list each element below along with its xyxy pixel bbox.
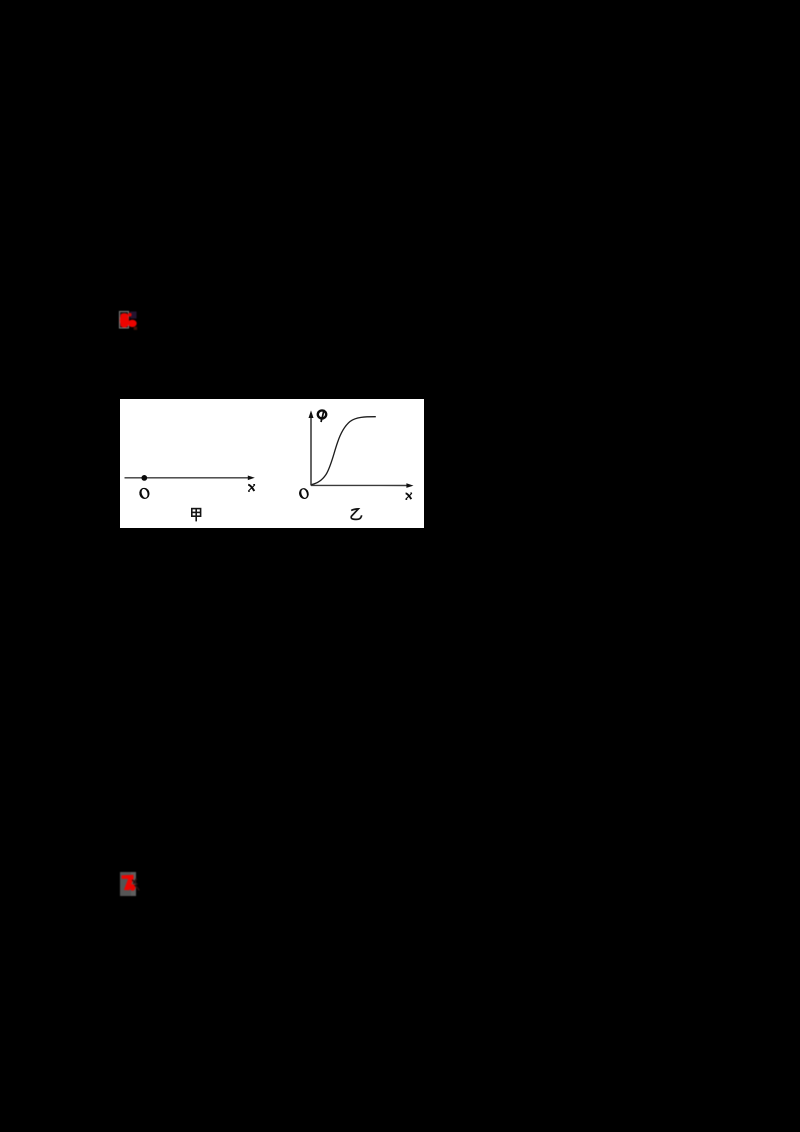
- x-axis of right diagram: [311, 484, 407, 486]
- arrowhead of y-axis: [309, 410, 314, 418]
- caption 乙 drawn as strokes: [351, 509, 362, 519]
- label phi: [318, 410, 326, 422]
- red 7 glyph: [121, 875, 133, 891]
- red mark 1 (tiny red glyph with gray box, upper area): [112, 304, 146, 338]
- figure panel (white): [120, 399, 424, 528]
- red comma blob: [130, 884, 136, 891]
- caption 甲 drawn as strokes: [192, 509, 201, 522]
- label x (right axis): [406, 493, 413, 500]
- red mark 2 (tiny red 7-like glyph on gray box, lower area): [112, 864, 148, 904]
- arrowhead of left x-axis: [248, 476, 255, 481]
- label x (left axis): [248, 484, 255, 491]
- label O (right origin): [298, 487, 310, 500]
- wire: x-axis line of left diagram: [125, 477, 250, 479]
- label O (left origin): [138, 487, 151, 501]
- arrowhead of right x-axis: [406, 483, 413, 488]
- y-axis of right diagram: [310, 417, 312, 486]
- dark scribble right of 7: [132, 879, 139, 891]
- node O dot on left axis: [141, 475, 147, 481]
- potential curve: S-shaped phi(x): [311, 417, 375, 485]
